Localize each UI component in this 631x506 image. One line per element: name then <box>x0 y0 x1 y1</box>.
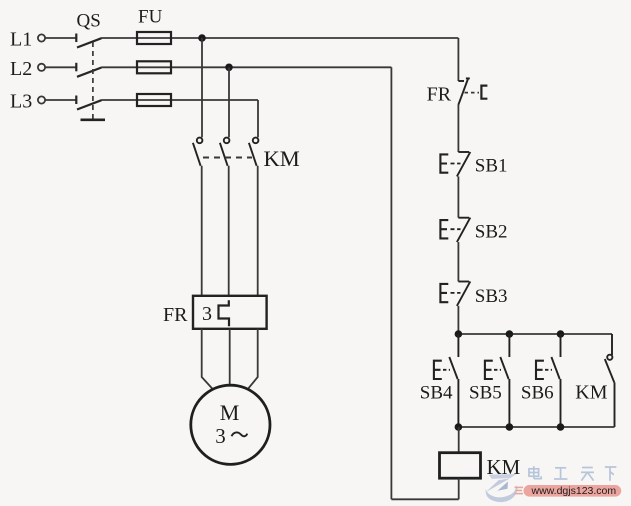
svg-text:FR: FR <box>163 304 188 326</box>
contactor KM auxiliary contact <box>605 334 615 427</box>
FR heater element <box>219 300 230 326</box>
svg-text:M: M <box>220 400 240 425</box>
watermark char gong <box>554 468 567 479</box>
wire SB1 to SB2 <box>457 176 459 217</box>
svg-text:SB3: SB3 <box>475 286 508 307</box>
start button SB4 <box>434 334 459 427</box>
junction dot L1/control branch <box>198 34 206 42</box>
svg-text:SB4: SB4 <box>420 382 453 403</box>
wire L3 row <box>45 99 76 101</box>
watermark hamburger <box>515 487 524 493</box>
QS handle bar <box>81 119 106 122</box>
junction dot bus top SB6 <box>557 330 565 338</box>
junction dot bus bottom SB6 <box>557 423 565 431</box>
wire left return riser to L2 <box>390 67 392 499</box>
FR trip linkage (dashed) <box>465 92 480 94</box>
watermark char tian <box>581 468 594 481</box>
wire KM3 to FR box <box>257 166 259 296</box>
terminal L1 <box>38 34 45 41</box>
svg-text:3: 3 <box>215 424 226 448</box>
svg-text:FR: FR <box>427 83 452 105</box>
svg-text:FU: FU <box>138 7 163 28</box>
wire bus to KM coil <box>458 427 460 453</box>
wire coil to bottom run <box>458 478 460 499</box>
junction dot bus top SB5 <box>506 330 514 338</box>
stop button SB2 <box>440 218 470 243</box>
wire control column top <box>457 38 459 81</box>
bottom parallel bus <box>458 426 614 428</box>
contactor KM main contact 1 <box>193 138 203 166</box>
contactor KM main contact 2 <box>220 138 230 166</box>
wire drop W phase <box>257 100 259 137</box>
svg-text:SB1: SB1 <box>475 156 508 177</box>
switch QS pole 2 <box>76 63 101 77</box>
wire KM2 to FR box <box>228 166 230 296</box>
svg-text:SB2: SB2 <box>475 221 508 242</box>
wire bottom return run <box>391 498 458 500</box>
thermal relay FR NC contact <box>458 78 470 105</box>
junction dot bus bottom SB4 <box>455 423 463 431</box>
top parallel bus <box>458 333 612 335</box>
svg-text:www.dgjs123.com: www.dgjs123.com <box>531 485 617 497</box>
wire SB2 to SB3 <box>457 242 459 281</box>
FR trip symbol <box>481 86 487 99</box>
svg-text:L3: L3 <box>10 91 32 113</box>
stop button SB3 <box>440 281 470 306</box>
wire L2 row right <box>101 66 391 68</box>
svg-text:QS: QS <box>77 11 101 32</box>
wire KM1 to FR box <box>201 166 203 296</box>
watermark url pill <box>524 485 622 497</box>
svg-text:KM: KM <box>264 146 300 171</box>
wire FR to motor V <box>229 329 231 385</box>
fuse FU3 <box>137 94 171 106</box>
contactor coil KM <box>440 453 481 479</box>
watermark char dian <box>529 466 541 478</box>
switch QS pole 1 <box>76 34 101 48</box>
contactor KM main contact 3 <box>249 138 259 166</box>
tilde (AC symbol) <box>232 432 248 436</box>
junction dot bus top SB4 <box>455 330 463 338</box>
wire L2 row <box>45 66 76 68</box>
thermal relay FR box <box>193 296 267 329</box>
svg-text:3: 3 <box>202 303 212 325</box>
wire L1 row <box>45 37 76 39</box>
wire drop U phase <box>201 38 203 137</box>
svg-text:SB5: SB5 <box>469 382 502 403</box>
terminal L2 <box>38 64 45 71</box>
wire FR to motor W <box>248 329 258 389</box>
start button SB5 <box>485 334 510 427</box>
start button SB6 <box>536 334 561 427</box>
fuse FU1 <box>137 32 171 44</box>
wire FR to motor U <box>202 329 213 389</box>
motor M <box>191 385 270 464</box>
QS linkage (dashed) <box>92 42 94 119</box>
junction dot bus bottom SB5 <box>506 423 514 431</box>
junction dot L2 branch <box>225 64 233 72</box>
svg-text:SB6: SB6 <box>521 382 554 403</box>
terminal L3 <box>38 96 45 103</box>
wire L1 row right <box>101 37 458 39</box>
svg-text:L1: L1 <box>10 29 32 51</box>
wire L3 row right <box>101 99 258 101</box>
svg-text:L2: L2 <box>10 58 32 80</box>
wire drop V phase <box>228 67 230 137</box>
KM main linkage (dashed) <box>203 157 252 159</box>
switch QS pole 3 <box>76 96 101 110</box>
watermark logo <box>486 474 518 502</box>
stop button SB1 <box>440 152 470 177</box>
svg-text:KM: KM <box>575 381 607 403</box>
watermark char xia <box>605 467 617 481</box>
wire SB3 to top bus <box>457 306 459 334</box>
wire FR to SB1 <box>457 105 459 152</box>
fuse FU2 <box>137 61 171 73</box>
